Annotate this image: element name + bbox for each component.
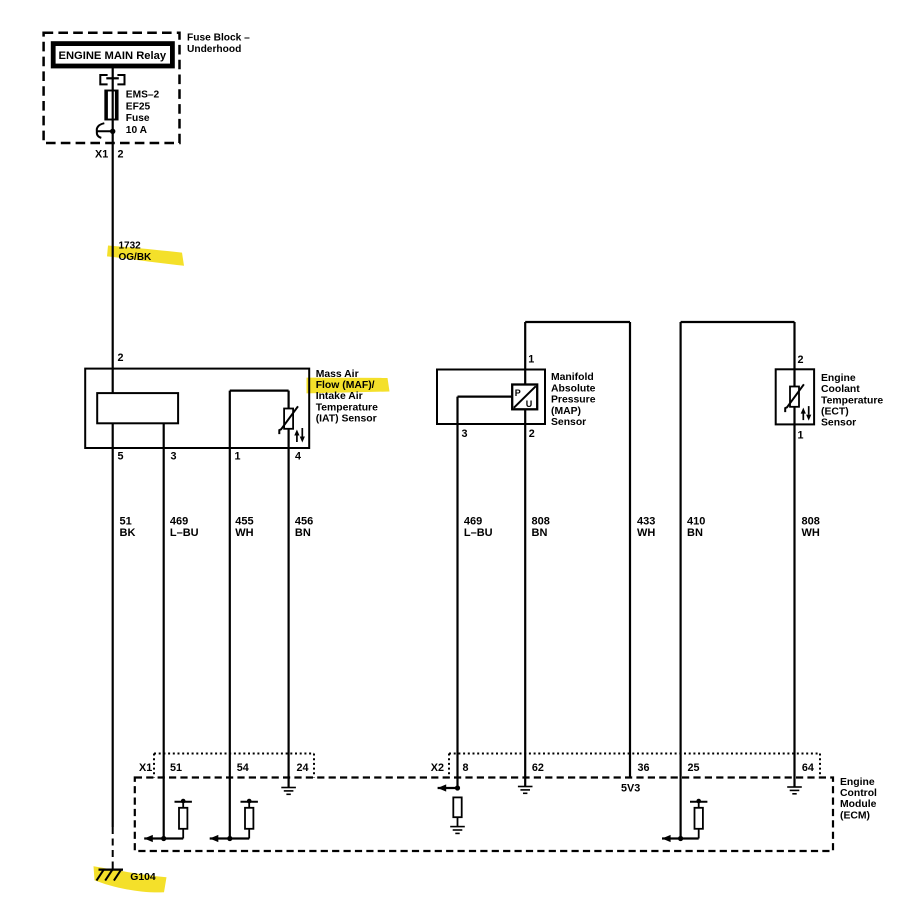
svg-text:10 A: 10 A bbox=[126, 125, 148, 136]
svg-text:410: 410 bbox=[687, 515, 705, 527]
svg-text:Underhood: Underhood bbox=[187, 44, 241, 55]
svg-text:Temperature: Temperature bbox=[821, 395, 883, 406]
svg-text:Module: Module bbox=[840, 799, 877, 810]
svg-text:Sensor: Sensor bbox=[551, 417, 586, 428]
svg-text:5V3: 5V3 bbox=[621, 783, 640, 795]
svg-text:2: 2 bbox=[118, 149, 124, 161]
svg-text:EMS–2: EMS–2 bbox=[126, 90, 160, 101]
svg-text:808: 808 bbox=[532, 515, 550, 527]
svg-text:L–BU: L–BU bbox=[170, 527, 199, 539]
svg-text:G104: G104 bbox=[130, 872, 156, 883]
svg-text:(ECM): (ECM) bbox=[840, 810, 870, 821]
svg-text:3: 3 bbox=[171, 451, 177, 463]
svg-text:Control: Control bbox=[840, 788, 877, 799]
svg-text:U: U bbox=[526, 399, 533, 409]
svg-text:Mass Air: Mass Air bbox=[316, 369, 359, 380]
svg-text:(IAT) Sensor: (IAT) Sensor bbox=[316, 414, 377, 425]
svg-text:(ECT): (ECT) bbox=[821, 407, 849, 418]
svg-text:62: 62 bbox=[532, 762, 544, 774]
svg-text:4: 4 bbox=[295, 451, 301, 463]
svg-text:1732: 1732 bbox=[119, 240, 142, 251]
svg-text:Absolute: Absolute bbox=[551, 383, 596, 394]
svg-text:Engine: Engine bbox=[821, 373, 856, 384]
svg-text:(MAP): (MAP) bbox=[551, 406, 581, 417]
svg-text:Fuse: Fuse bbox=[126, 113, 150, 124]
svg-text:24: 24 bbox=[297, 762, 309, 774]
svg-text:2: 2 bbox=[529, 428, 535, 440]
svg-text:433: 433 bbox=[637, 515, 655, 527]
svg-text:Manifold: Manifold bbox=[551, 372, 594, 383]
svg-text:X2: X2 bbox=[431, 762, 444, 774]
svg-text:808: 808 bbox=[802, 515, 820, 527]
svg-text:8: 8 bbox=[463, 762, 469, 774]
svg-text:X1: X1 bbox=[139, 762, 152, 774]
svg-text:456: 456 bbox=[295, 515, 313, 527]
svg-text:Sensor: Sensor bbox=[821, 418, 856, 429]
svg-text:WH: WH bbox=[637, 527, 655, 539]
svg-text:BN: BN bbox=[532, 527, 548, 539]
svg-text:X1: X1 bbox=[95, 149, 108, 161]
svg-text:L–BU: L–BU bbox=[464, 527, 493, 539]
svg-text:Intake Air: Intake Air bbox=[316, 391, 363, 402]
svg-text:1: 1 bbox=[528, 353, 534, 365]
svg-text:WH: WH bbox=[802, 527, 820, 539]
svg-text:455: 455 bbox=[235, 515, 253, 527]
svg-text:OG/BK: OG/BK bbox=[119, 252, 153, 263]
svg-text:2: 2 bbox=[118, 352, 124, 364]
svg-text:51: 51 bbox=[120, 515, 132, 527]
svg-text:25: 25 bbox=[688, 762, 700, 774]
svg-text:EF25: EF25 bbox=[126, 101, 151, 112]
svg-text:Pressure: Pressure bbox=[551, 395, 596, 406]
svg-text:3: 3 bbox=[462, 428, 468, 440]
svg-text:P: P bbox=[515, 388, 521, 398]
svg-text:Flow (MAF)/: Flow (MAF)/ bbox=[316, 380, 375, 391]
svg-text:BN: BN bbox=[295, 527, 311, 539]
svg-text:Temperature: Temperature bbox=[316, 402, 378, 413]
svg-text:51: 51 bbox=[170, 762, 182, 774]
svg-text:BK: BK bbox=[120, 527, 136, 539]
svg-text:Coolant: Coolant bbox=[821, 384, 860, 395]
svg-text:469: 469 bbox=[464, 515, 482, 527]
svg-text:Engine: Engine bbox=[840, 777, 875, 788]
svg-text:36: 36 bbox=[638, 762, 650, 774]
svg-text:BN: BN bbox=[687, 527, 703, 539]
svg-text:1: 1 bbox=[798, 430, 804, 442]
svg-text:54: 54 bbox=[237, 762, 249, 774]
svg-text:5: 5 bbox=[118, 451, 124, 463]
svg-text:ENGINE MAIN Relay: ENGINE MAIN Relay bbox=[59, 50, 167, 62]
svg-text:Fuse Block –: Fuse Block – bbox=[187, 33, 250, 44]
svg-text:2: 2 bbox=[798, 354, 804, 366]
svg-text:64: 64 bbox=[802, 762, 814, 774]
svg-text:WH: WH bbox=[235, 527, 253, 539]
svg-text:469: 469 bbox=[170, 515, 188, 527]
svg-text:1: 1 bbox=[235, 451, 241, 463]
